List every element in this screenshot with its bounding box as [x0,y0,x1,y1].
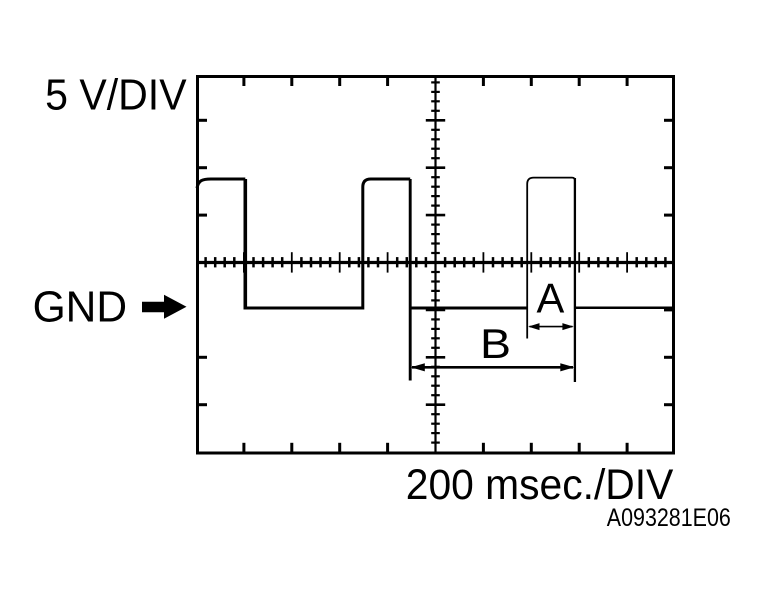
waveform low (GND) segment 1 [244,307,363,310]
dimension arrow B (double-headed) [411,363,575,371]
waveform pulse 2 falling edge (extends to B arrow) [409,179,412,381]
waveform low (GND) segment 3 [575,307,675,310]
center vertical axis [434,75,436,455]
svg-text:A: A [537,275,565,322]
svg-text:B: B [480,320,511,367]
waveform pulse 3 falling edge (extends to B arrow) [574,178,576,382]
oscilloscope screen bezel [198,77,674,454]
svg-text:5 V/DIV: 5 V/DIV [45,71,187,119]
waveform pulse 1 falling edge [244,179,248,310]
svg-text:200 msec./DIV: 200 msec./DIV [406,461,674,509]
dimension arrow A (double-headed) [528,323,574,330]
horizontal axis minor ticks [206,257,666,267]
horizontal axis division ticks [244,252,627,272]
waveform low (GND) segment 2 [410,307,527,310]
waveform pulse 1 (partial, from left edge) [197,179,245,188]
vertical axis division ticks [426,120,445,404]
vertical axis minor ticks [431,82,440,442]
GND pointer arrow [142,295,187,319]
waveform pulse 3 (thin trace) [527,178,575,339]
svg-text:A093281E06: A093281E06 [607,504,731,532]
waveform pulse 2 [363,179,410,310]
center horizontal axis [196,261,675,264]
svg-text:GND: GND [33,282,128,331]
graticule border ticks [196,75,675,455]
